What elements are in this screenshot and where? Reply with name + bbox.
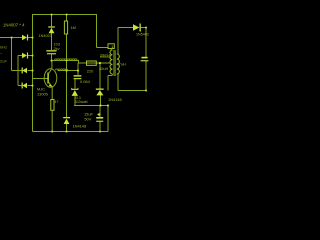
transistor Q1 MJE13005 xyxy=(44,61,57,100)
capacitor C4 15uF 50V xyxy=(96,113,103,122)
wire diode D6 to bottom rail xyxy=(66,124,68,132)
wire AC row 4 left xyxy=(18,85,22,87)
wire output right drop lower xyxy=(145,61,147,91)
wire row3 to bus xyxy=(28,70,33,72)
junction output diode corner xyxy=(145,27,147,29)
svg-text:2uF: 2uF xyxy=(0,59,7,64)
junction collector node xyxy=(51,60,53,62)
wire cap C2 to zener xyxy=(74,79,76,88)
wire AC left bus 1 xyxy=(11,38,13,71)
wire diode to cap xyxy=(51,33,53,50)
label 1N4148 right over wire xyxy=(107,97,125,103)
junction bottom rail R2 xyxy=(51,131,53,133)
junction AC node row1 xyxy=(11,37,13,39)
svg-text:0Hz: 0Hz xyxy=(0,45,7,50)
svg-text:47: 47 xyxy=(54,100,58,104)
wire cap to collector node xyxy=(51,54,53,61)
resistor R2 47 emitter xyxy=(51,100,54,132)
junction collector row x66 xyxy=(66,60,68,62)
wire AC row 2 left xyxy=(18,55,22,57)
junction mid rail end x108 xyxy=(107,105,109,107)
svg-text:1/2watt: 1/2watt xyxy=(75,99,88,104)
wire AC row 3 left xyxy=(12,70,23,72)
diode D1 bridge xyxy=(22,35,28,41)
svg-text:1N4148: 1N4148 xyxy=(73,123,87,128)
capacitor C1 103 2kv xyxy=(46,50,56,54)
svg-text:47uH: 47uH xyxy=(117,62,126,67)
zener ZD1 xyxy=(71,88,78,96)
svg-text:2kv: 2kv xyxy=(54,46,60,51)
junction bus row3 xyxy=(32,70,34,72)
junction bus row2 xyxy=(32,55,34,57)
junction feedback node x78 xyxy=(77,70,79,72)
wire x108 column upper xyxy=(107,76,109,91)
wire feedback row xyxy=(58,70,79,72)
wire row1 to bus xyxy=(28,37,33,39)
svg-text:39mH: 39mH xyxy=(100,52,111,57)
wire diode D4148a to mid rail xyxy=(100,95,102,106)
svg-text:1N4007: 1N4007 xyxy=(39,34,52,38)
junction bus row4 xyxy=(32,85,34,87)
wire bridge right bus xyxy=(32,15,34,132)
wire output return xyxy=(118,90,146,92)
wire secondary top xyxy=(117,28,119,55)
wire zener to mid rail xyxy=(74,96,76,106)
wire output diode to corner xyxy=(141,27,147,29)
junction node x100 row xyxy=(99,62,101,64)
junction bus row1 xyxy=(32,37,34,39)
wire top rail xyxy=(32,14,97,16)
wire cap C4 top lead xyxy=(99,106,101,118)
diode D5 1N4007 snubber xyxy=(48,26,55,33)
wire row2 to bus xyxy=(28,55,33,57)
junction rail D5 xyxy=(51,14,53,16)
svg-text:40uH: 40uH xyxy=(99,66,108,71)
wire cap C4 bottom lead xyxy=(99,122,101,132)
svg-text:1: 1 xyxy=(111,45,113,49)
wire primary drop from rail xyxy=(96,15,98,48)
wire 1M lower xyxy=(66,34,68,117)
transformer T1 xyxy=(108,44,119,76)
svg-text:50V: 50V xyxy=(84,116,91,121)
junction output return corner xyxy=(145,90,147,92)
junction bottom rail C4 xyxy=(99,131,101,133)
diode D7 1N4148 up xyxy=(96,89,104,96)
junction mid rail x100 xyxy=(100,105,102,107)
wire snubber diode drop xyxy=(51,15,53,28)
capacitor C2 0.068 xyxy=(74,75,82,79)
wire collector row xyxy=(52,61,111,64)
inductor bumps feedback row xyxy=(55,69,67,70)
svg-text:0.084: 0.084 xyxy=(80,79,91,84)
diode D3 bridge xyxy=(22,68,27,74)
junction rail R1 xyxy=(66,14,68,16)
wire output diode feed xyxy=(118,27,133,29)
resistor R3 220 xyxy=(87,61,97,65)
diode D2 bridge xyxy=(22,53,28,59)
wire primary top feed xyxy=(97,47,109,49)
diode D8 1N5402 output xyxy=(133,24,141,32)
junction feedback node x66 xyxy=(66,70,68,72)
wire row4 to bus xyxy=(28,85,33,87)
svg-text:1N4007 * 4: 1N4007 * 4 xyxy=(3,23,25,28)
wire AC left bus 2 xyxy=(17,56,19,86)
svg-text:220: 220 xyxy=(87,69,94,74)
svg-text:13005: 13005 xyxy=(37,92,48,97)
wire AC input row 1 xyxy=(0,37,22,39)
junction dots xyxy=(11,14,147,133)
wire bottom rail xyxy=(33,131,109,133)
wire secondary bottom xyxy=(117,74,119,91)
inductor bumps collector row xyxy=(54,59,77,60)
wire 1M drop from rail xyxy=(66,15,68,21)
wire 39mH stub xyxy=(100,56,111,58)
wire diode D4148a column xyxy=(99,63,101,89)
svg-text:1N4148: 1N4148 xyxy=(108,97,122,102)
wire mid rail xyxy=(74,105,108,107)
wire base xyxy=(33,78,48,80)
svg-text:1M: 1M xyxy=(71,25,76,30)
wire node drop x78 xyxy=(77,63,79,75)
diode D6 1N4148 to bottom rail xyxy=(63,117,70,124)
svg-text:1N5402: 1N5402 xyxy=(136,33,149,37)
label texts xyxy=(0,23,149,129)
wire x108 column lower xyxy=(107,106,109,132)
diode D4 bridge xyxy=(22,83,27,89)
wire output right drop upper xyxy=(145,28,147,58)
wire winding L bottom jog xyxy=(108,75,112,77)
resistor R1 1M xyxy=(64,21,67,34)
capacitor C3 output xyxy=(141,57,149,62)
junction bottom rail D6 xyxy=(66,131,68,133)
